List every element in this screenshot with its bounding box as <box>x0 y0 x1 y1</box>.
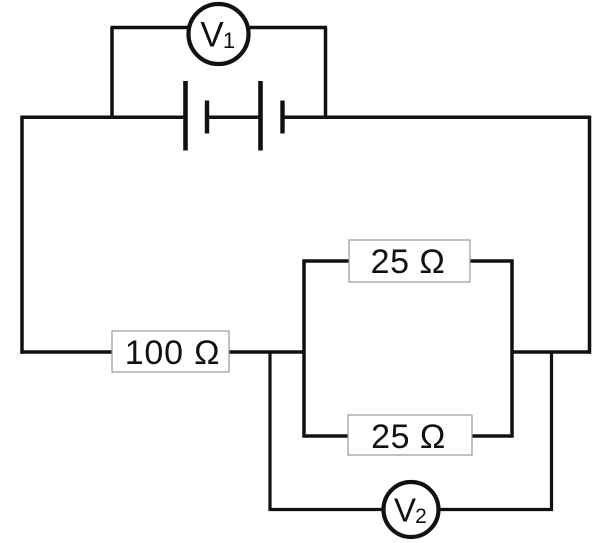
svg-text:25 Ω: 25 Ω <box>371 243 446 281</box>
wire: parallel top branch <box>303 259 514 263</box>
resistor R1 100 Ω box <box>112 331 229 372</box>
svg-text:V: V <box>200 16 224 55</box>
wire: V1 branch left vertical <box>110 28 114 119</box>
svg-text:2: 2 <box>415 505 427 528</box>
svg-text:25 Ω: 25 Ω <box>371 418 446 456</box>
wire: middle wire left segment (through R 100) <box>21 350 306 354</box>
wire: parallel section left vertical <box>302 260 306 438</box>
voltmeter V1 <box>189 4 249 64</box>
wire: V1 branch right vertical <box>324 28 328 119</box>
resistor R3 25 Ω box (bottom of parallel pair) <box>348 415 472 456</box>
svg-text:1: 1 <box>223 28 235 53</box>
wire: top wire left segment (to battery) <box>22 115 186 119</box>
wire: V2 branch left vertical <box>268 352 271 511</box>
wire: parallel section right vertical <box>510 260 514 438</box>
voltmeter V2 <box>384 482 439 537</box>
wire: battery inter-cell segment <box>207 115 261 119</box>
battery cell 2 long plate <box>258 81 263 151</box>
wire: outer loop right vertical <box>588 116 592 354</box>
wire: middle wire right segment <box>511 350 592 354</box>
svg-text:V: V <box>394 492 416 529</box>
resistor R2 25 Ω box (top of parallel pair) <box>349 240 470 282</box>
battery cell 2 short plate <box>280 101 284 134</box>
battery cell 1 long plate <box>183 81 188 151</box>
wire: top wire right segment (battery to right corner) <box>283 115 590 119</box>
wire: V2 branch bottom horizontal <box>269 508 554 511</box>
wire: parallel bottom branch <box>303 434 514 438</box>
svg-text:100 Ω: 100 Ω <box>125 334 221 372</box>
wire: V2 branch right vertical <box>550 352 553 511</box>
wire: outer loop left vertical <box>20 116 24 354</box>
wire: V1 branch top horizontal <box>111 26 328 30</box>
battery cell 1 short plate <box>205 101 209 134</box>
